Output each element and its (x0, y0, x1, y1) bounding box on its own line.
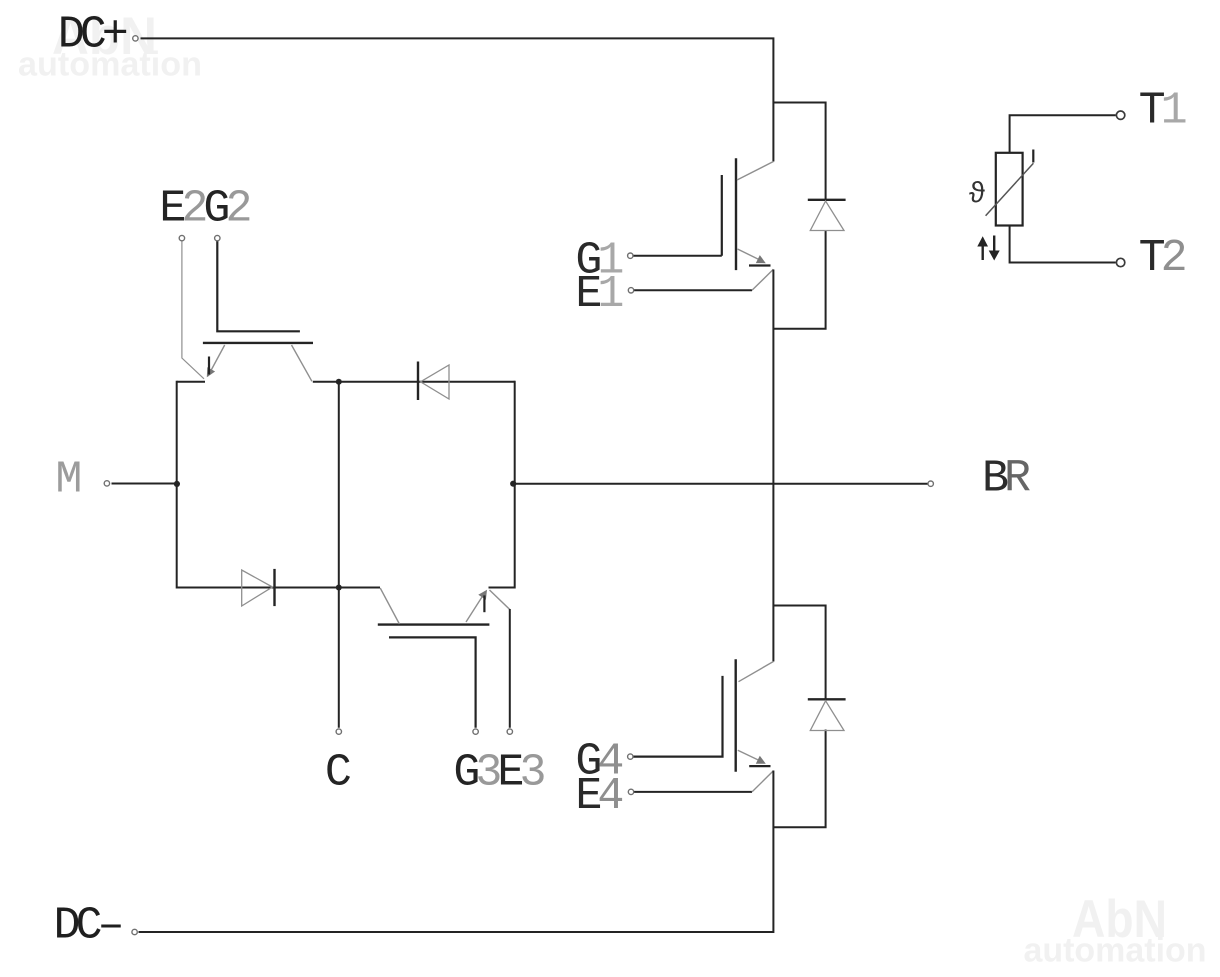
transistor Q2 collector slant (292, 345, 312, 381)
diode D4 cathode bar (808, 698, 846, 700)
diode D2 cathode bar (417, 362, 419, 401)
transistor Q4 emitter bar (749, 765, 770, 767)
transistor Q1 emitter arrow (756, 255, 766, 263)
wire top-left stub (177, 381, 205, 383)
node E3 terminal (507, 729, 512, 734)
wire E2 lead (182, 240, 204, 379)
label E4 (575, 771, 622, 822)
wire top horizontal right segment (313, 381, 515, 383)
transistor Q2 emitter arrow (207, 367, 215, 377)
wire M lead (112, 483, 177, 485)
node G1 terminal (628, 253, 633, 258)
node C terminal (336, 729, 341, 734)
wire BR line (515, 483, 928, 485)
wire D4 branch upper (773, 606, 825, 700)
wire E1 slant (752, 269, 773, 290)
node junction M-left vertical (174, 481, 180, 487)
wire E3 lead vertical (509, 609, 511, 728)
transistor Q3 emitter slant (466, 592, 486, 623)
transistor Q3 collector slant (380, 588, 399, 624)
wire C lead vertical (338, 382, 340, 728)
node BR terminal (928, 481, 933, 486)
svg-text:DC–: DC– (54, 901, 122, 952)
label G4 (575, 736, 622, 787)
svg-text:T2: T2 (1139, 233, 1185, 284)
node E4 terminal (628, 789, 633, 794)
transistor Q4 channel bar (735, 659, 737, 771)
transistor Q3 emitter bar (483, 595, 485, 612)
label DC- (54, 901, 122, 952)
wire E4 slant (752, 771, 773, 792)
wire right vertical of bridge (514, 381, 516, 589)
transistor Q1 gate plate (721, 175, 723, 256)
label theta (969, 178, 986, 211)
label E1 (575, 269, 622, 320)
wire E3 slant (490, 590, 510, 610)
transistor Q1 emitter bar (749, 264, 771, 266)
thermistor R1 body (996, 153, 1023, 226)
wire E4 lead (634, 791, 752, 793)
diode D3 triangle (242, 570, 273, 606)
node E1 terminal (628, 288, 633, 293)
node G4 terminal (628, 754, 633, 759)
label T1 (1139, 86, 1186, 137)
watermark AbN automation top-left (18, 7, 202, 84)
transistor Q4 emitter slant (738, 750, 763, 762)
transistor Q4 collector slant (739, 662, 774, 682)
node junction top center (336, 379, 342, 385)
label G1 (575, 235, 622, 286)
label M (55, 455, 80, 506)
node T2 terminal (1116, 258, 1124, 266)
wire bottom horizontal left segment (177, 587, 380, 589)
transistor Q3 emitter arrow (478, 590, 487, 600)
svg-text:M: M (55, 455, 80, 506)
svg-text:DC+: DC+ (58, 10, 127, 61)
svg-text:E1: E1 (575, 269, 622, 320)
wire D1 branch upper (773, 103, 825, 201)
svg-text:automation: automation (1024, 932, 1207, 970)
transistor Q1 emitter slant (738, 249, 764, 262)
diode D1 triangle (810, 201, 844, 231)
wire Q1 emitter to Q4 collector (main rail) (772, 270, 774, 662)
node T1 terminal (1116, 111, 1124, 119)
label E2G2 (159, 183, 249, 234)
svg-text:BR: BR (982, 454, 1030, 505)
label T2 (1139, 233, 1185, 284)
transistor Q2 gate lead and plate (217, 240, 300, 331)
transistor Q4 emitter arrow (756, 756, 766, 764)
transistor Q3 gate plate and G3 lead (389, 637, 476, 727)
wire G1 lead (633, 255, 722, 257)
label C (325, 748, 351, 799)
transistor Q1 channel bar (735, 158, 737, 270)
thermistor R1 diagonal (986, 150, 1034, 216)
node junction BR-left rail (510, 481, 516, 487)
svg-text:E2G2: E2G2 (159, 183, 249, 234)
wire left vertical of bridge (176, 381, 178, 589)
svg-text:G3E3: G3E3 (453, 748, 544, 799)
wire E1 lead (634, 289, 752, 291)
wire D4 branch lower (773, 730, 825, 828)
transistor Q2 emitter bar (208, 357, 210, 375)
transistor Q1 collector slant (737, 162, 773, 181)
svg-text:T1: T1 (1139, 86, 1186, 137)
wire D1 branch lower (773, 230, 825, 329)
diode D4 triangle (810, 701, 844, 731)
diode D1 cathode bar (808, 199, 846, 201)
node DC- terminal (132, 929, 137, 934)
svg-text:ϑ: ϑ (969, 178, 986, 211)
transistor Q3 channel bar (378, 623, 490, 625)
node G2 terminal (215, 235, 220, 240)
diode D3 cathode bar (273, 569, 275, 606)
transistor Q4 gate plate and G4 lead (634, 676, 723, 757)
node junction bottom center (336, 585, 342, 591)
label G3E3 (453, 748, 544, 799)
label DC+ (58, 10, 127, 61)
node E2 terminal (179, 235, 184, 240)
node M terminal (104, 481, 109, 486)
svg-text:E4: E4 (575, 771, 622, 822)
wire DC+ rail to Q1 collector (141, 38, 774, 161)
node DC+ terminal (133, 36, 138, 41)
wire T1 lead (1010, 115, 1116, 153)
label BR (982, 454, 1030, 505)
transistor Q2 channel bar (203, 342, 313, 344)
wire bottom-right stub (489, 587, 515, 589)
watermark AbN automation bottom-right (1024, 890, 1207, 970)
diode D2 triangle (421, 365, 450, 399)
wire T2 lead (1010, 226, 1116, 263)
transistor Q2 emitter slant (208, 345, 225, 376)
symbol up-down arrows (977, 236, 999, 261)
node G3 terminal (473, 729, 478, 734)
wire Q4 emitter to DC- rail (139, 771, 774, 933)
